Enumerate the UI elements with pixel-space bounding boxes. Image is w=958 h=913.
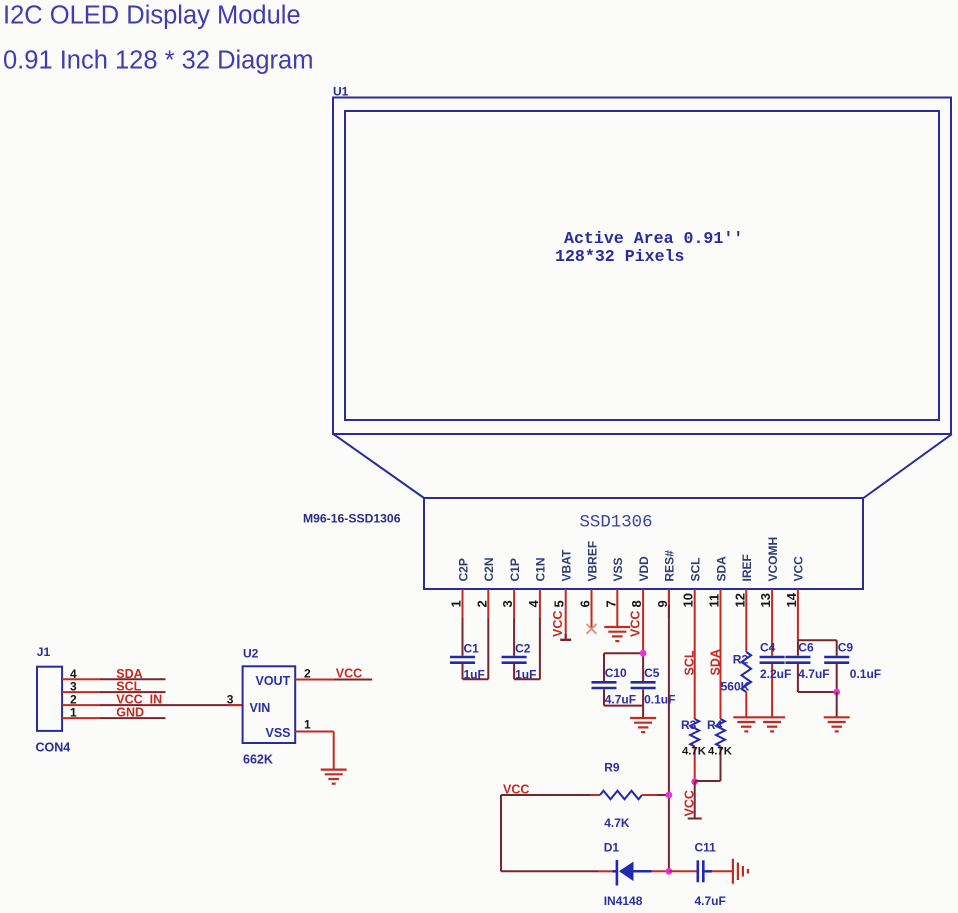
svg-text:10: 10 [681, 593, 696, 607]
svg-text:4.7K: 4.7K [604, 816, 630, 830]
svg-text:13: 13 [758, 593, 773, 607]
svg-text:11: 11 [707, 594, 722, 608]
svg-text:C11: C11 [695, 841, 717, 855]
svg-text:2.2uF: 2.2uF [760, 667, 791, 681]
svg-text:1: 1 [304, 718, 311, 732]
svg-text:1uF: 1uF [515, 668, 536, 682]
svg-text:IREF: IREF [740, 554, 754, 581]
svg-text:4.7K: 4.7K [708, 745, 733, 757]
svg-text:VDD: VDD [637, 556, 651, 582]
svg-text:R9: R9 [604, 760, 620, 774]
svg-text:3: 3 [227, 692, 234, 706]
svg-text:12: 12 [732, 593, 747, 607]
svg-text:4: 4 [526, 600, 541, 608]
svg-text:C2P: C2P [456, 558, 470, 581]
svg-text:3: 3 [70, 680, 77, 694]
svg-text:VCC: VCC [336, 667, 362, 681]
svg-text:4.7uF: 4.7uF [695, 894, 726, 908]
svg-text:3: 3 [500, 600, 515, 607]
svg-text:128*32 Pixels: 128*32 Pixels [555, 247, 684, 266]
svg-text:662K: 662K [243, 752, 273, 766]
svg-text:8: 8 [629, 600, 644, 607]
svg-text:SDA: SDA [709, 649, 723, 675]
svg-text:R3: R3 [681, 718, 697, 732]
svg-text:C4: C4 [760, 641, 776, 655]
svg-text:2: 2 [304, 667, 311, 681]
svg-text:I2C OLED Display Module: I2C OLED Display Module [3, 2, 301, 30]
svg-text:560K: 560K [721, 680, 750, 694]
svg-text:RES#: RES# [663, 550, 677, 582]
svg-text:6: 6 [578, 600, 593, 607]
svg-text:Active Area 0.91'': Active Area 0.91'' [564, 229, 743, 248]
svg-text:SSD1306: SSD1306 [580, 514, 653, 533]
svg-text:7: 7 [603, 600, 618, 607]
svg-text:M96-16-SSD1306: M96-16-SSD1306 [303, 512, 401, 526]
svg-text:VCC_IN: VCC_IN [116, 693, 162, 707]
svg-text:5: 5 [552, 600, 567, 607]
svg-text:VCC: VCC [629, 611, 643, 637]
svg-text:C1: C1 [464, 642, 480, 656]
svg-text:VBREF: VBREF [585, 541, 599, 582]
svg-text:SCL: SCL [689, 558, 703, 582]
svg-text:SCL: SCL [116, 680, 141, 694]
svg-text:2: 2 [474, 600, 489, 607]
svg-text:C5: C5 [644, 666, 660, 680]
svg-text:VCC: VCC [551, 611, 565, 637]
svg-text:VCC: VCC [792, 556, 806, 582]
svg-text:D1: D1 [604, 841, 620, 855]
svg-text:4.7K: 4.7K [682, 745, 707, 757]
svg-text:C1P: C1P [508, 558, 522, 581]
svg-text:C9: C9 [838, 641, 854, 655]
svg-text:J1: J1 [37, 645, 51, 659]
svg-text:R4: R4 [707, 718, 723, 732]
svg-text:VIN: VIN [250, 701, 271, 715]
svg-text:0.1uF: 0.1uF [644, 692, 675, 706]
svg-text:VSS: VSS [611, 557, 625, 581]
svg-text:C10: C10 [605, 666, 627, 680]
svg-text:C2: C2 [515, 642, 531, 656]
svg-text:1: 1 [449, 600, 464, 607]
svg-text:VBAT: VBAT [560, 549, 574, 581]
svg-text:C1N: C1N [534, 557, 548, 581]
svg-text:4.7uF: 4.7uF [798, 667, 829, 681]
svg-text:SDA: SDA [714, 556, 728, 582]
svg-text:C6: C6 [798, 641, 814, 655]
svg-text:0.91 Inch 128 * 32 Diagram: 0.91 Inch 128 * 32 Diagram [3, 47, 313, 75]
svg-text:VSS: VSS [266, 726, 291, 740]
svg-text:14: 14 [784, 592, 799, 607]
svg-text:2: 2 [70, 693, 77, 707]
svg-text:1: 1 [70, 706, 77, 720]
svg-text:0.1uF: 0.1uF [850, 667, 881, 681]
svg-text:4.7uF: 4.7uF [605, 692, 636, 706]
svg-text:VCOMH: VCOMH [766, 537, 780, 582]
svg-text:1uF: 1uF [464, 668, 485, 682]
svg-text:9: 9 [655, 600, 670, 607]
svg-text:U2: U2 [243, 647, 259, 661]
svg-text:GND: GND [116, 706, 144, 720]
svg-text:U1: U1 [333, 85, 349, 99]
svg-text:CON4: CON4 [36, 741, 71, 755]
svg-text:C2N: C2N [482, 557, 496, 581]
svg-text:VCC: VCC [683, 790, 697, 816]
svg-text:VOUT: VOUT [256, 674, 291, 688]
svg-text:SCL: SCL [683, 650, 697, 675]
svg-text:R2: R2 [733, 653, 749, 667]
svg-text:IN4148: IN4148 [604, 894, 643, 908]
